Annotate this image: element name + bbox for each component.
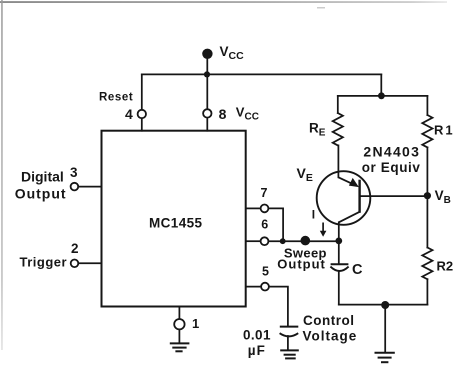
resistor R1 zigzag [422,115,432,147]
ground pin 1 [170,343,190,351]
wire base lead to VB [360,195,427,197]
wire RE top lead [337,96,339,113]
transistor Q1 body circle [317,171,371,225]
wire pin 3 stub [78,186,101,188]
resistor R2 zigzag [422,248,432,280]
wire RE bottom lead / emitter lead [337,145,339,177]
svg-text:VCC: VCC [220,44,245,62]
wire VCC stem through junction to pin 8 [206,57,208,109]
wire pin 1 to ground [178,330,180,343]
svg-text:C: C [352,262,363,278]
wire pin 6 stub from box [247,240,261,242]
svg-text:Digital: Digital [21,169,64,185]
svg-text:RE: RE [309,121,326,139]
wire capacitor C bottom stem [338,272,340,305]
scan border left [1,0,3,350]
wire R1 top lead [426,96,428,115]
svg-text:Trigger: Trigger [20,255,68,270]
svg-text:6: 6 [261,218,268,232]
wire reset drop to pin 4 [141,74,143,109]
svg-text:VE: VE [297,165,313,184]
svg-text:I: I [312,208,315,222]
svg-text:1: 1 [192,316,199,331]
svg-text:5: 5 [262,265,269,279]
wire pin 7 to drop [268,208,283,241]
junction pin7 pin6 [280,238,286,244]
node VB junction [424,192,431,199]
resistor RE zigzag [333,113,343,145]
wire R2 bottom lead [426,279,428,304]
pin 8 terminal circle [203,109,211,117]
capacitor 0.01uF top plate [280,326,299,328]
svg-text:µF: µF [248,343,266,358]
svg-text:Output: Output [277,257,326,272]
svg-text:R1: R1 [434,123,455,138]
pin 5 terminal circle [261,283,269,291]
node sweep output big dot [301,236,311,246]
svg-text:R2: R2 [437,259,454,274]
wire top right drop [380,74,382,96]
wire pin 5 to control cap [269,287,288,326]
wire bottom rail [339,304,428,306]
wire RE-R1 top rail [338,95,428,97]
pin 4 terminal circle [138,110,146,118]
svg-text:Control: Control [303,313,355,328]
svg-text:0.01: 0.01 [243,327,271,342]
wire pin 2 stub [78,262,101,264]
svg-text:VCC: VCC [236,105,259,123]
wire right rail VB to R2 [426,196,428,248]
junction bottom ground [381,301,389,309]
svg-text:3: 3 [70,165,78,180]
transistor Q1 collector diagonal [339,212,360,223]
wire pin 7 stub from box [247,207,261,209]
svg-text:Output: Output [15,186,67,202]
wire capacitor C top stem [338,241,340,263]
ground bottom mid [375,353,395,362]
junction collector [335,238,342,245]
transistor Q1 emitter diagonal with arrow [338,177,359,187]
wire collector drop [338,222,340,241]
svg-text:VB: VB [435,188,451,206]
svg-text:2N4403: 2N4403 [363,144,420,160]
VCC terminal dot [202,49,212,59]
capacitor 0.01uF curved plate [280,333,299,336]
wire pin 1 stem [178,307,180,320]
transistor Q1 base bar [358,180,360,213]
svg-text:4: 4 [125,106,133,122]
IC U1 MC1455 box [102,131,246,307]
wire control cap ground stem [287,336,289,350]
wire sweep output from pin 6 [268,240,338,242]
wire pin 5 stub from box [247,286,262,288]
capacitor C curved plate [330,267,348,271]
svg-text:8: 8 [219,106,227,122]
svg-text:7: 7 [261,186,268,200]
wire pin 8 stem to box [206,118,208,131]
junction RE-R1 rail [378,92,385,99]
svg-text:Voltage: Voltage [303,329,358,344]
wire top horizontal VCC rail [142,73,381,75]
svg-text:Reset: Reset [99,92,133,104]
junction VCC rail [204,71,210,77]
capacitor C top plate [331,263,349,265]
current arrow I [320,223,327,237]
pin 2 terminal circle [71,260,79,268]
pin 7 terminal circle [261,205,269,213]
pin 6 terminal circle [261,237,269,245]
scan speck top middle [317,7,325,9]
pin 3 terminal circle [71,183,79,191]
wire R1 bottom lead to VB [426,147,428,195]
pin 1 terminal circle [174,319,184,329]
svg-text:or Equiv: or Equiv [362,160,421,175]
svg-text:MC1455: MC1455 [149,216,203,231]
scan border top [0,1,447,3]
wire pin 4 stem to box [141,118,143,130]
ground control cap [280,350,299,358]
wire mid ground stem [384,305,386,353]
svg-text:2: 2 [71,241,79,256]
